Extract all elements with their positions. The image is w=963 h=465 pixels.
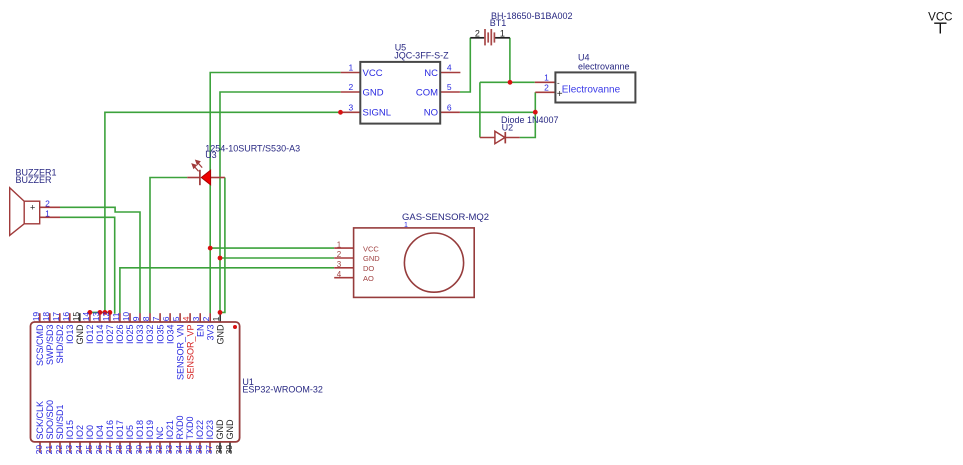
svg-text:26: 26 — [94, 445, 104, 455]
svg-text:6: 6 — [161, 316, 171, 321]
svg-text:RXD0: RXD0 — [175, 415, 185, 439]
svg-text:39: 39 — [224, 445, 234, 455]
svg-text:+: + — [557, 89, 563, 100]
svg-text:15: 15 — [71, 312, 81, 322]
svg-text:IO15: IO15 — [65, 420, 75, 440]
svg-text:2: 2 — [475, 29, 480, 39]
svg-text:4: 4 — [447, 63, 452, 73]
svg-text:14: 14 — [81, 312, 91, 322]
svg-text:IO17: IO17 — [115, 420, 125, 440]
svg-text:20: 20 — [34, 445, 44, 455]
svg-text:1: 1 — [349, 63, 354, 73]
svg-text:24: 24 — [74, 445, 84, 455]
svg-text:U2: U2 — [502, 123, 514, 133]
svg-text:IO33: IO33 — [135, 325, 145, 345]
svg-text:IO5: IO5 — [125, 425, 135, 440]
svg-text:3: 3 — [337, 260, 342, 269]
svg-text:DO: DO — [363, 264, 374, 273]
svg-text:4: 4 — [181, 316, 191, 321]
svg-text:10: 10 — [121, 312, 131, 322]
svg-text:IO23: IO23 — [205, 420, 215, 440]
svg-text:NC: NC — [424, 68, 438, 79]
svg-text:37: 37 — [204, 445, 214, 455]
svg-text:VCC: VCC — [928, 12, 952, 24]
svg-text:GND: GND — [215, 324, 225, 345]
svg-text:5: 5 — [171, 316, 181, 321]
svg-text:17: 17 — [51, 312, 61, 322]
svg-text:IO14: IO14 — [95, 325, 105, 345]
svg-text:1: 1 — [211, 316, 221, 321]
svg-text:SENSOR_VN: SENSOR_VN — [175, 325, 185, 381]
svg-text:JQC-3FF-S-Z: JQC-3FF-S-Z — [394, 50, 449, 60]
svg-text:12: 12 — [101, 312, 111, 322]
svg-text:3: 3 — [349, 102, 354, 112]
svg-text:21: 21 — [44, 445, 54, 455]
svg-text:2: 2 — [544, 83, 549, 93]
svg-text:SCS/CMD: SCS/CMD — [35, 324, 45, 366]
svg-text:3: 3 — [191, 316, 201, 321]
svg-text:-: - — [557, 79, 560, 88]
svg-text:electrovanne: electrovanne — [578, 62, 630, 72]
svg-text:32: 32 — [154, 445, 164, 455]
svg-text:VCC: VCC — [363, 244, 379, 253]
svg-text:SWP/SD3: SWP/SD3 — [45, 325, 55, 366]
svg-text:23: 23 — [64, 445, 74, 455]
svg-text:SCK/CLK: SCK/CLK — [35, 401, 45, 440]
svg-text:GND: GND — [363, 254, 380, 263]
svg-text:30: 30 — [134, 445, 144, 455]
svg-text:NO: NO — [424, 108, 438, 119]
svg-text:SDI/SD1: SDI/SD1 — [55, 404, 65, 439]
svg-text:9: 9 — [131, 316, 141, 321]
svg-text:3V3: 3V3 — [205, 325, 215, 341]
svg-text:SENSOR_VP: SENSOR_VP — [185, 325, 195, 380]
svg-text:IO16: IO16 — [105, 420, 115, 440]
svg-text:27: 27 — [104, 445, 114, 455]
svg-text:IO19: IO19 — [145, 420, 155, 440]
svg-text:19: 19 — [31, 312, 41, 322]
svg-text:IO35: IO35 — [155, 325, 165, 345]
svg-text:GND: GND — [363, 87, 384, 98]
svg-text:22: 22 — [54, 445, 64, 455]
svg-text:5: 5 — [447, 82, 452, 92]
svg-text:U3: U3 — [205, 150, 217, 160]
svg-text:IO21: IO21 — [165, 420, 175, 440]
svg-text:1: 1 — [544, 72, 549, 82]
svg-text:IO4: IO4 — [95, 425, 105, 440]
svg-text:IO34: IO34 — [165, 325, 175, 345]
svg-text:IO32: IO32 — [145, 325, 155, 345]
svg-text:33: 33 — [164, 445, 174, 455]
svg-text:6: 6 — [447, 102, 452, 112]
svg-text:IO27: IO27 — [105, 325, 115, 345]
svg-text:IO26: IO26 — [115, 325, 125, 345]
svg-text:7: 7 — [151, 316, 161, 321]
svg-text:18: 18 — [41, 312, 51, 322]
svg-text:NC: NC — [155, 426, 165, 439]
svg-text:AO: AO — [363, 274, 374, 283]
svg-text:1: 1 — [337, 240, 342, 249]
svg-text:IO2: IO2 — [75, 425, 85, 440]
svg-text:8: 8 — [141, 316, 151, 321]
svg-text:ESP32-WROOM-32: ESP32-WROOM-32 — [242, 384, 323, 394]
svg-text:SIGNL: SIGNL — [363, 108, 392, 119]
svg-text:29: 29 — [124, 445, 134, 455]
svg-text:TXD0: TXD0 — [185, 416, 195, 439]
svg-text:+: + — [30, 202, 35, 212]
svg-text:BT1: BT1 — [490, 18, 507, 28]
svg-text:1: 1 — [45, 209, 50, 219]
svg-text:BUZZER: BUZZER — [16, 175, 53, 185]
svg-text:IO12: IO12 — [85, 325, 95, 345]
svg-text:IO0: IO0 — [85, 425, 95, 440]
svg-text:28: 28 — [114, 445, 124, 455]
svg-text:1: 1 — [500, 29, 505, 39]
svg-text:2: 2 — [337, 250, 342, 259]
svg-text:2: 2 — [201, 316, 211, 321]
svg-text:GND: GND — [225, 419, 235, 440]
svg-text:IO13: IO13 — [65, 325, 75, 345]
svg-text:2: 2 — [349, 82, 354, 92]
svg-text:38: 38 — [214, 445, 224, 455]
svg-text:34: 34 — [174, 445, 184, 455]
svg-text:13: 13 — [91, 312, 101, 322]
svg-text:11: 11 — [111, 312, 121, 321]
svg-text:COM: COM — [416, 87, 438, 98]
svg-text:EN: EN — [195, 325, 205, 338]
svg-text:Electrovanne: Electrovanne — [562, 85, 621, 96]
svg-text:IO25: IO25 — [125, 325, 135, 345]
svg-text:31: 31 — [144, 445, 154, 455]
svg-text:25: 25 — [84, 445, 94, 455]
svg-text:IO18: IO18 — [135, 420, 145, 440]
svg-text:1254-10SURT/S530-A3: 1254-10SURT/S530-A3 — [205, 144, 300, 154]
svg-text:GAS-SENSOR-MQ2: GAS-SENSOR-MQ2 — [402, 212, 489, 223]
svg-text:SHD/SD2: SHD/SD2 — [55, 325, 65, 364]
svg-text:GND: GND — [215, 419, 225, 440]
svg-text:35: 35 — [184, 445, 194, 455]
svg-text:1: 1 — [404, 222, 408, 229]
svg-text:36: 36 — [194, 445, 204, 455]
svg-text:GND: GND — [75, 324, 85, 345]
svg-text:2: 2 — [45, 198, 50, 208]
svg-text:SDO/SD0: SDO/SD0 — [45, 400, 55, 440]
svg-text:IO22: IO22 — [195, 420, 205, 440]
svg-text:VCC: VCC — [363, 68, 383, 79]
svg-text:4: 4 — [337, 270, 342, 279]
svg-text:16: 16 — [61, 312, 71, 322]
